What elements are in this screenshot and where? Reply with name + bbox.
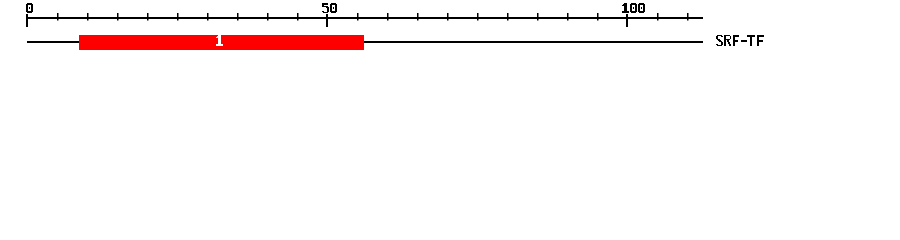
sequence backbone line (27, 41, 703, 43)
ruler major tick 50 (326, 14, 328, 27)
ruler label "0" (26, 3, 33, 13)
background (0, 0, 900, 58)
ruler major tick 100 (626, 14, 628, 27)
ruler label "100" (622, 3, 645, 13)
domain name label "SRF-TF" (716, 35, 764, 46)
ruler label "50" (322, 3, 337, 13)
domain box (red) (79, 35, 364, 50)
ruler axis line (27, 17, 703, 19)
domain number label "1" (216, 35, 223, 46)
ruler minor ticks (every 5 units) (57, 13, 689, 21)
ruler major tick 0 (26, 14, 28, 27)
